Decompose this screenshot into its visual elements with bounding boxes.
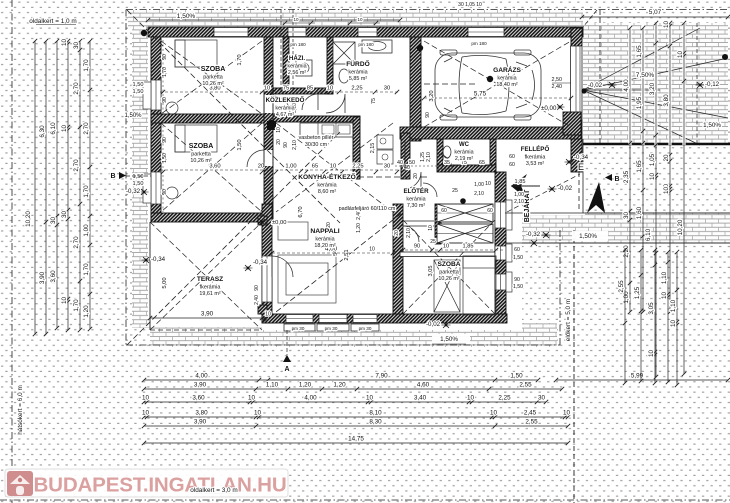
svg-text:kerámia: kerámia xyxy=(497,76,516,82)
svg-text:20: 20 xyxy=(394,230,400,236)
svg-text:10: 10 xyxy=(357,17,363,22)
svg-text:5,75: 5,75 xyxy=(474,91,487,98)
svg-text:KÖZLEKEDŐ: KÖZLEKEDŐ xyxy=(266,97,305,104)
svg-text:85: 85 xyxy=(307,86,313,92)
svg-text:60: 60 xyxy=(509,154,515,160)
svg-text:3,90: 3,90 xyxy=(39,271,46,284)
svg-text:8,60 m²: 8,60 m² xyxy=(318,189,336,195)
svg-text:6,10: 6,10 xyxy=(645,228,652,241)
svg-text:1,70: 1,70 xyxy=(83,263,90,276)
svg-text:90: 90 xyxy=(254,285,260,291)
svg-text:10,26 m²: 10,26 m² xyxy=(202,81,223,87)
svg-text:3,90: 3,90 xyxy=(194,419,207,426)
svg-text:2,25: 2,25 xyxy=(498,395,511,402)
svg-text:10,26 m²: 10,26 m² xyxy=(438,276,459,282)
svg-text:pm 180: pm 180 xyxy=(290,42,306,47)
svg-text:1,50: 1,50 xyxy=(133,181,144,187)
svg-text:2,15: 2,15 xyxy=(370,143,376,154)
svg-text:pm 180: pm 180 xyxy=(358,42,374,47)
svg-text:3,05: 3,05 xyxy=(428,266,434,277)
svg-text:ELŐTÉR: ELŐTÉR xyxy=(403,187,429,195)
svg-text:1,70: 1,70 xyxy=(83,185,90,198)
svg-text:hátsókert = 6,0 m: hátsókert = 6,0 m xyxy=(17,385,24,435)
svg-text:19,61 m²: 19,61 m² xyxy=(199,291,220,297)
svg-text:1,65: 1,65 xyxy=(636,160,643,173)
svg-text:1,10: 1,10 xyxy=(266,382,279,389)
svg-text:vasbeton pillér: vasbeton pillér xyxy=(299,135,334,141)
svg-text:4,00: 4,00 xyxy=(195,373,208,380)
svg-text:1,50: 1,50 xyxy=(133,82,144,88)
svg-text:kerámia: kerámia xyxy=(406,197,425,203)
svg-text:6,30: 6,30 xyxy=(39,125,46,138)
svg-text:2,10: 2,10 xyxy=(474,191,484,197)
svg-text:NAPPALI: NAPPALI xyxy=(310,228,339,235)
svg-text:2,55: 2,55 xyxy=(525,419,538,426)
svg-text:2,10: 2,10 xyxy=(426,152,432,162)
svg-text:3,80: 3,80 xyxy=(195,410,208,417)
svg-text:±0,00: ±0,00 xyxy=(272,220,286,226)
svg-text:2,40: 2,40 xyxy=(552,84,563,90)
svg-text:10: 10 xyxy=(490,410,498,417)
svg-text:20: 20 xyxy=(663,154,670,162)
svg-text:5,07: 5,07 xyxy=(649,9,662,16)
svg-text:10: 10 xyxy=(467,395,475,402)
svg-text:40: 40 xyxy=(397,160,403,166)
svg-text:1,65: 1,65 xyxy=(636,45,643,58)
svg-text:fkerámia: fkerámia xyxy=(200,285,221,291)
svg-text:25: 25 xyxy=(430,239,436,245)
svg-text:1,20: 1,20 xyxy=(299,382,312,389)
svg-text:1,10: 1,10 xyxy=(661,271,668,284)
svg-text:10: 10 xyxy=(443,244,449,250)
svg-text:20: 20 xyxy=(326,222,332,228)
svg-text:4,67 m²: 4,67 m² xyxy=(276,112,294,118)
svg-text:2,51: 2,51 xyxy=(344,249,350,260)
svg-text:1,50%: 1,50% xyxy=(579,233,597,240)
svg-text:1,50%: 1,50% xyxy=(124,113,142,119)
svg-text:10: 10 xyxy=(276,127,282,133)
svg-text:10: 10 xyxy=(265,312,271,318)
svg-text:1,00: 1,00 xyxy=(514,192,524,198)
svg-text:30/30 cm: 30/30 cm xyxy=(305,142,328,148)
svg-text:1,50: 1,50 xyxy=(513,255,523,261)
svg-text:7,30 m²: 7,30 m² xyxy=(407,203,425,209)
svg-text:5,00: 5,00 xyxy=(162,277,168,288)
svg-text:pm 30: pm 30 xyxy=(325,326,338,331)
svg-text:2,45: 2,45 xyxy=(524,410,537,417)
svg-text:75: 75 xyxy=(283,86,289,92)
svg-text:pm 30: pm 30 xyxy=(359,326,372,331)
svg-text:FÜRDŐ: FÜRDŐ xyxy=(346,59,369,68)
svg-text:2,55: 2,55 xyxy=(618,280,625,293)
svg-text:60: 60 xyxy=(514,247,520,253)
svg-text:-0,02: -0,02 xyxy=(588,82,603,89)
svg-text:HÁZI.: HÁZI. xyxy=(289,55,305,62)
svg-text:10: 10 xyxy=(61,125,68,133)
svg-text:padlásfeljáró 60/110 cm: padlásfeljáró 60/110 cm xyxy=(339,206,396,212)
svg-text:10: 10 xyxy=(142,410,150,417)
svg-text:oldalkert = 1,0 m: oldalkert = 1,0 m xyxy=(29,18,76,25)
svg-text:3,20: 3,20 xyxy=(649,82,656,95)
svg-text:4,00: 4,00 xyxy=(623,79,630,92)
svg-text:-0,34: -0,34 xyxy=(151,256,166,263)
svg-text:1,10: 1,10 xyxy=(670,299,677,312)
svg-text:5,85 m²: 5,85 m² xyxy=(349,76,367,82)
svg-text:90: 90 xyxy=(514,277,520,283)
svg-text:30: 30 xyxy=(384,86,390,92)
svg-text:10: 10 xyxy=(61,39,68,47)
svg-text:10: 10 xyxy=(663,187,670,195)
svg-text:1,00: 1,00 xyxy=(83,224,90,237)
svg-text:10: 10 xyxy=(485,181,491,187)
svg-text:10: 10 xyxy=(369,247,375,253)
svg-text:10,20: 10,20 xyxy=(25,211,32,227)
svg-text:1,50: 1,50 xyxy=(133,89,144,95)
svg-text:KONYHA-ÉTKEZŐ: KONYHA-ÉTKEZŐ xyxy=(298,172,356,181)
svg-text:3,20: 3,20 xyxy=(429,90,435,101)
svg-text:2,70: 2,70 xyxy=(73,82,80,95)
svg-text:4,60: 4,60 xyxy=(417,382,430,389)
svg-text:1,20: 1,20 xyxy=(356,223,362,233)
svg-text:1,50: 1,50 xyxy=(237,139,243,150)
svg-text:1,20: 1,20 xyxy=(333,382,346,389)
svg-text:GARÁZS: GARÁZS xyxy=(493,65,521,74)
svg-text:±0,00: ±0,00 xyxy=(541,105,557,112)
svg-text:pm 180: pm 180 xyxy=(471,41,487,46)
svg-text:10: 10 xyxy=(428,225,434,231)
svg-text:2,55: 2,55 xyxy=(519,382,532,389)
svg-text:50: 50 xyxy=(409,160,415,166)
svg-text:30: 30 xyxy=(623,212,630,220)
svg-text:1,50%: 1,50% xyxy=(703,122,721,129)
svg-text:pm 30: pm 30 xyxy=(292,326,305,331)
svg-text:kerámia: kerámia xyxy=(454,150,473,156)
svg-text:3,05: 3,05 xyxy=(648,302,655,315)
svg-text:1,50%: 1,50% xyxy=(177,13,196,20)
svg-text:fkerámia: fkerámia xyxy=(525,155,546,161)
svg-text:10: 10 xyxy=(366,395,374,402)
svg-text:1,85: 1,85 xyxy=(463,244,474,250)
svg-text:2,50: 2,50 xyxy=(552,77,563,83)
svg-text:20: 20 xyxy=(413,173,419,179)
svg-text:10,20: 10,20 xyxy=(677,219,684,235)
svg-text:WC: WC xyxy=(459,142,470,148)
svg-text:20: 20 xyxy=(258,164,264,170)
svg-text:SZOBA: SZOBA xyxy=(189,143,214,150)
svg-text:2,70: 2,70 xyxy=(73,236,80,249)
svg-text:90: 90 xyxy=(414,244,420,250)
svg-text:4,00: 4,00 xyxy=(304,395,317,402)
svg-text:3,90: 3,90 xyxy=(194,382,207,389)
svg-text:6,10: 6,10 xyxy=(50,122,57,135)
svg-text:2,70: 2,70 xyxy=(73,159,80,172)
svg-text:75: 75 xyxy=(371,98,377,104)
svg-text:1,60: 1,60 xyxy=(636,206,643,219)
svg-text:10,26 m²: 10,26 m² xyxy=(190,158,211,164)
svg-text:1,05: 1,05 xyxy=(649,153,656,166)
svg-text:TERASZ: TERASZ xyxy=(197,276,223,283)
svg-text:35: 35 xyxy=(444,160,450,166)
svg-text:10: 10 xyxy=(563,410,571,417)
svg-text:2,35: 2,35 xyxy=(623,170,630,183)
svg-text:-0,12: -0,12 xyxy=(705,81,720,88)
svg-text:1,25: 1,25 xyxy=(634,286,641,299)
svg-text:1,50: 1,50 xyxy=(510,373,523,380)
svg-text:90: 90 xyxy=(283,142,289,148)
svg-text:2,10: 2,10 xyxy=(406,228,412,238)
svg-text:1,50: 1,50 xyxy=(133,174,144,180)
svg-text:-0,02: -0,02 xyxy=(426,321,441,328)
svg-text:25: 25 xyxy=(452,188,458,194)
svg-text:2,10: 2,10 xyxy=(514,199,524,205)
svg-text:BUDAPEST.INGATLAN.HU: BUDAPEST.INGATLAN.HU xyxy=(33,474,286,497)
svg-text:5,99: 5,99 xyxy=(631,373,644,380)
svg-text:90: 90 xyxy=(425,112,431,118)
svg-text:10: 10 xyxy=(61,297,68,305)
svg-text:parketta: parketta xyxy=(439,270,458,276)
svg-text:60: 60 xyxy=(487,208,493,214)
svg-text:30 1,05 10: 30 1,05 10 xyxy=(458,2,482,8)
svg-text:1,95: 1,95 xyxy=(636,96,643,109)
svg-text:10: 10 xyxy=(330,164,336,170)
svg-text:oldalkert = 3,0 m: oldalkert = 3,0 m xyxy=(190,487,237,494)
svg-text:10: 10 xyxy=(293,17,299,22)
svg-text:kerámia: kerámia xyxy=(287,64,306,70)
svg-text:18,40 m²: 18,40 m² xyxy=(496,82,517,88)
svg-text:10: 10 xyxy=(670,320,677,328)
svg-text:2,25: 2,25 xyxy=(352,164,363,170)
svg-text:30: 30 xyxy=(73,42,80,50)
svg-text:2,56 m²: 2,56 m² xyxy=(288,70,306,76)
svg-text:kerámia: kerámia xyxy=(348,70,367,76)
svg-text:kerámia: kerámia xyxy=(315,237,334,243)
svg-text:kerámia: kerámia xyxy=(275,106,294,112)
svg-text:14,75: 14,75 xyxy=(348,436,364,443)
svg-text:kerámia: kerámia xyxy=(317,183,336,189)
svg-text:30: 30 xyxy=(384,164,390,170)
svg-text:3,60: 3,60 xyxy=(50,270,57,283)
svg-text:10: 10 xyxy=(677,51,684,59)
svg-text:7,90: 7,90 xyxy=(375,373,388,380)
svg-text:65: 65 xyxy=(312,164,318,170)
svg-text:1,00: 1,00 xyxy=(474,182,484,188)
svg-text:30: 30 xyxy=(61,211,68,219)
svg-text:SZOBA: SZOBA xyxy=(201,66,226,73)
svg-text:10: 10 xyxy=(648,350,655,358)
svg-text:1,70: 1,70 xyxy=(237,54,243,65)
svg-text:1,70: 1,70 xyxy=(73,299,80,312)
svg-text:10: 10 xyxy=(661,292,668,300)
svg-text:A: A xyxy=(284,366,289,373)
svg-text:előkert = 5,0 m: előkert = 5,0 m xyxy=(565,299,572,341)
svg-text:3,60: 3,60 xyxy=(192,395,205,402)
svg-text:E: E xyxy=(578,162,584,172)
svg-text:1,50%: 1,50% xyxy=(440,336,458,343)
svg-text:10: 10 xyxy=(264,86,270,92)
svg-text:10: 10 xyxy=(649,173,656,181)
svg-text:10: 10 xyxy=(254,410,262,417)
svg-text:3,90: 3,90 xyxy=(201,311,214,318)
svg-text:2,70: 2,70 xyxy=(83,122,90,135)
svg-text:3,80: 3,80 xyxy=(663,94,670,107)
svg-text:10: 10 xyxy=(663,21,670,29)
svg-text:60: 60 xyxy=(441,208,447,214)
svg-text:-0,34: -0,34 xyxy=(253,259,268,266)
svg-text:parketta: parketta xyxy=(191,152,210,158)
svg-text:60: 60 xyxy=(509,162,515,168)
svg-text:FELLÉPŐ: FELLÉPŐ xyxy=(521,145,550,153)
svg-text:65: 65 xyxy=(479,160,485,166)
svg-text:-0,32: -0,32 xyxy=(526,231,541,238)
svg-text:-0,34: -0,34 xyxy=(574,154,589,161)
svg-text:20: 20 xyxy=(276,139,282,145)
svg-text:1,85: 1,85 xyxy=(515,179,526,185)
svg-text:18,20 m²: 18,20 m² xyxy=(314,243,335,249)
svg-text:6,70: 6,70 xyxy=(298,206,304,217)
svg-text:parketta: parketta xyxy=(203,75,222,81)
svg-text:3,40: 3,40 xyxy=(414,395,427,402)
svg-text:2,40: 2,40 xyxy=(254,295,260,305)
svg-text:B: B xyxy=(614,176,619,183)
svg-text:3,53 m²: 3,53 m² xyxy=(526,161,544,167)
svg-text:2,25: 2,25 xyxy=(351,86,362,92)
svg-text:2,10: 2,10 xyxy=(292,140,298,150)
svg-text:8,30: 8,30 xyxy=(369,419,382,426)
svg-text:8,10: 8,10 xyxy=(369,410,382,417)
svg-text:-0,32: -0,32 xyxy=(126,188,141,195)
svg-text:1,00: 1,00 xyxy=(285,164,296,170)
svg-text:10: 10 xyxy=(327,86,333,92)
svg-text:2,19 m²: 2,19 m² xyxy=(455,156,473,162)
svg-text:30: 30 xyxy=(50,217,57,225)
svg-text:10: 10 xyxy=(142,395,150,402)
svg-text:1,50: 1,50 xyxy=(513,284,523,290)
svg-text:SZOBA: SZOBA xyxy=(437,261,460,268)
svg-text:1,20: 1,20 xyxy=(83,305,90,318)
svg-text:30: 30 xyxy=(538,395,546,402)
svg-text:B: B xyxy=(110,173,115,180)
svg-text:7,50%: 7,50% xyxy=(636,72,655,79)
svg-text:10: 10 xyxy=(248,395,256,402)
svg-text:3,60: 3,60 xyxy=(209,164,220,170)
svg-text:1,70: 1,70 xyxy=(83,59,90,72)
svg-text:-0,02: -0,02 xyxy=(558,185,573,192)
